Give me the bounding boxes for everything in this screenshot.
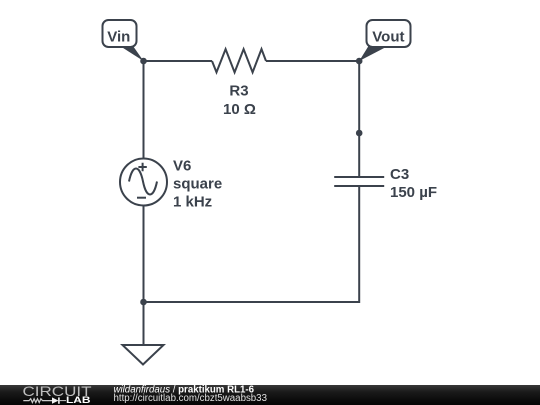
svg-text:square: square	[173, 176, 222, 193]
junction node Vin	[140, 58, 147, 65]
CircuitLab logo resistor zigzag	[23, 399, 52, 403]
resistor R3	[212, 49, 266, 72]
CircuitLab logo diode	[52, 397, 59, 403]
svg-text:Vout: Vout	[372, 29, 404, 46]
wire right vertical lower (C3 to bottom wire)	[144, 186, 360, 302]
junction dot on right branch	[356, 130, 363, 137]
wire right vertical upper (Vout node to C3)	[358, 61, 360, 177]
svg-text:V6: V6	[173, 158, 191, 175]
wire top-right (R3 to Vout node)	[266, 60, 359, 62]
svg-text:http://circuitlab.com/cbzt5waa: http://circuitlab.com/cbzt5waabsb33	[114, 393, 267, 404]
svg-text:LAB: LAB	[66, 395, 91, 405]
junction node Vout	[356, 58, 363, 65]
capacitor C3	[334, 177, 384, 186]
footer bar	[0, 385, 540, 405]
svg-text:R3: R3	[229, 83, 248, 100]
wire ground stem	[143, 302, 145, 345]
node flag Vin	[103, 20, 144, 61]
svg-text:Vin: Vin	[107, 28, 130, 45]
svg-text:10 Ω: 10 Ω	[223, 101, 256, 118]
node flag Vout	[359, 20, 410, 61]
wire left vertical lower (V6 to bottom wire)	[143, 206, 145, 303]
wire top-left (Vin node to R3)	[144, 60, 213, 62]
ground	[123, 345, 164, 365]
svg-text:1 kHz: 1 kHz	[173, 194, 212, 211]
wire left vertical upper (Vin node to V6)	[143, 61, 145, 159]
svg-text:C3: C3	[390, 166, 409, 183]
junction bottom-left	[140, 299, 147, 306]
svg-text:150 µF: 150 µF	[390, 184, 437, 201]
voltage source V6	[120, 159, 167, 206]
